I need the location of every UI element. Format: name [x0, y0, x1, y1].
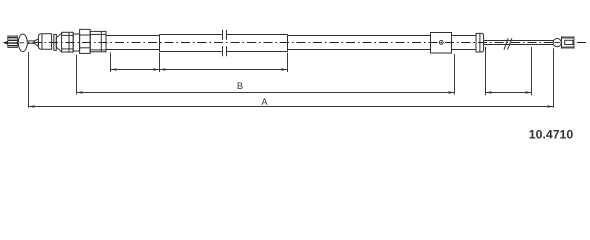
- svg-text:10.4710: 10.4710: [529, 128, 574, 142]
- svg-text:A: A: [261, 97, 268, 107]
- svg-text:B: B: [237, 81, 243, 91]
